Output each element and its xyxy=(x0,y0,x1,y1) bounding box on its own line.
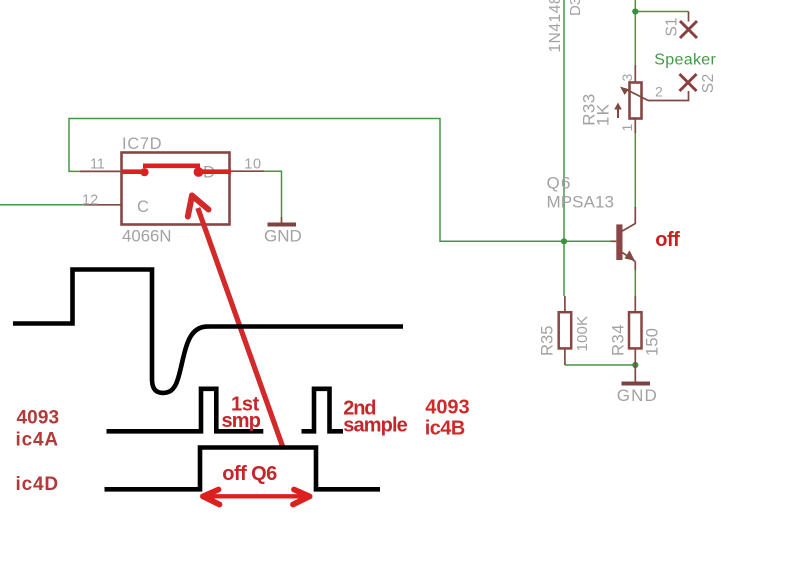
junction node emitter GND xyxy=(632,362,638,368)
pot R33 bottom stub xyxy=(634,119,636,134)
svg-text:IC7D: IC7D xyxy=(122,135,162,153)
svg-text:150: 150 xyxy=(644,328,662,356)
svg-text:sample: sample xyxy=(343,414,408,436)
S1 stub xyxy=(688,12,690,22)
annotation long arrow shaft xyxy=(198,208,284,449)
transistor Q6 emitter with arrow xyxy=(622,250,635,270)
svg-text:4066N: 4066N xyxy=(122,227,172,246)
svg-text:ic4D: ic4D xyxy=(16,474,59,495)
potentiometer R33 wiper arrow xyxy=(620,87,648,101)
svg-text:R35: R35 xyxy=(539,326,557,357)
svg-text:2: 2 xyxy=(655,84,663,100)
svg-text:S1: S1 xyxy=(664,18,681,37)
svg-text:11: 11 xyxy=(90,156,105,172)
svg-text:ic4B: ic4B xyxy=(425,418,466,440)
R35 top stub xyxy=(564,296,566,312)
R34 top stub xyxy=(634,296,636,312)
annotation closed-switch stroke over IC7D xyxy=(122,166,231,172)
svg-text:4093: 4093 xyxy=(17,408,60,429)
wire net to pin 12 (left edge) xyxy=(0,204,84,206)
pin 10 stub xyxy=(230,170,265,172)
wire collector net top vertical xyxy=(634,0,636,65)
resistor R35 body xyxy=(559,312,572,348)
wire emitter to R34 xyxy=(634,270,636,296)
R35 bottom stub xyxy=(564,348,566,365)
svg-text:MPSA13: MPSA13 xyxy=(547,193,615,212)
R34 bottom stub xyxy=(634,348,636,365)
op-amp switch IC7D body xyxy=(122,153,230,225)
svg-text:100K: 100K xyxy=(574,316,591,352)
wire branch to S1 xyxy=(635,11,688,13)
Q6 base stub xyxy=(611,240,617,242)
svg-text:4093: 4093 xyxy=(425,396,469,418)
wire pot to collector xyxy=(634,133,636,207)
svg-text:C: C xyxy=(137,198,149,216)
svg-text:S2: S2 xyxy=(700,74,717,94)
junction node collector/S1 xyxy=(632,8,638,14)
pot wiper pin 2 wire to S2 xyxy=(648,91,689,101)
svg-text:10: 10 xyxy=(244,157,261,173)
svg-text:ic4A: ic4A xyxy=(16,430,59,451)
svg-text:off: off xyxy=(655,229,680,251)
connector S2 X mark xyxy=(680,74,697,91)
transistor Q6 base bar xyxy=(616,224,622,260)
svg-text:smp: smp xyxy=(222,410,262,432)
annotation switch node dot left xyxy=(140,168,148,176)
ground GND left bar xyxy=(268,223,297,227)
waveform top trace xyxy=(13,270,403,393)
svg-text:off Q6: off Q6 xyxy=(222,463,277,485)
connector S1 X mark xyxy=(680,21,697,38)
svg-text:Q6: Q6 xyxy=(547,173,571,192)
wire pin10 to GND xyxy=(264,171,282,217)
svg-text:1N4148: 1N4148 xyxy=(547,0,564,53)
gnd2 stub xyxy=(634,365,636,382)
wire 1N4148 net vertical xyxy=(563,0,565,296)
svg-text:12: 12 xyxy=(82,193,98,209)
svg-text:Speaker: Speaker xyxy=(654,52,716,69)
pin 11 stub xyxy=(80,170,122,172)
Q6 collector stub xyxy=(622,207,635,231)
svg-text:D3: D3 xyxy=(567,0,584,16)
waveform ic4D pulse xyxy=(105,448,381,490)
pin 12 stub xyxy=(84,204,122,206)
annotation long arrow head xyxy=(188,196,209,217)
svg-text:GND: GND xyxy=(617,386,657,405)
svg-text:1: 1 xyxy=(619,124,635,132)
potentiometer R33 body xyxy=(630,83,642,119)
waveform ic4A second pulse xyxy=(302,389,344,432)
svg-text:3: 3 xyxy=(619,74,635,82)
potentiometer R33 adjust arrow xyxy=(614,103,622,119)
resistor R34 body xyxy=(629,312,642,348)
svg-text:R34: R34 xyxy=(610,325,628,357)
svg-text:GND: GND xyxy=(264,226,302,245)
svg-text:1K: 1K xyxy=(594,103,613,126)
ground GND right bar xyxy=(622,382,651,386)
waveform ic4A first pulse xyxy=(107,389,264,432)
annotation switch node dot right xyxy=(194,167,204,177)
wire R35/R34 bottom to GND xyxy=(565,364,635,366)
junction node base xyxy=(561,238,567,244)
pot R33 top stub xyxy=(634,65,636,83)
wire from pin 11 up and across top to Q6 base xyxy=(69,119,611,242)
gnd1 stub xyxy=(281,217,283,223)
annotation double arrow under off Q6 xyxy=(203,490,310,505)
